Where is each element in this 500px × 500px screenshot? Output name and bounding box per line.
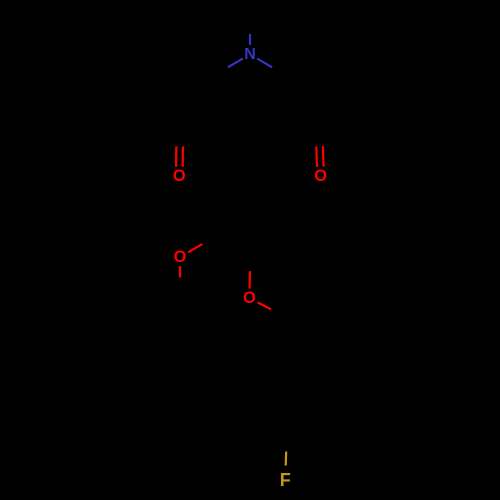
svg-text:O: O [174, 248, 187, 266]
svg-text:N: N [244, 46, 256, 63]
svg-text:O: O [173, 167, 186, 185]
svg-text:O: O [314, 167, 327, 185]
svg-text:F: F [280, 470, 291, 490]
svg-text:O: O [243, 289, 256, 307]
